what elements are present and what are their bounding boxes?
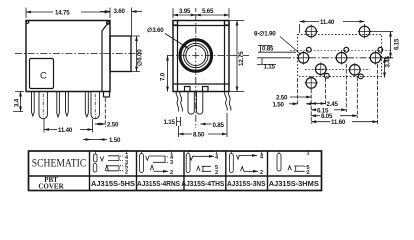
hole L1 small circle — [324, 73, 329, 78]
svg-text:∅6.00: ∅6.00 — [137, 49, 144, 66]
dim 3.95/5.65 center extension — [195, 8, 197, 12]
dim dia6.00 line — [136, 36, 138, 72]
front view body — [173, 21, 229, 92]
svg-text:∅3.60: ∅3.60 — [147, 27, 164, 34]
schematic cell 2: AJ315S-4RNS — [140, 150, 174, 176]
switch contact V — [190, 156, 193, 160]
side view horizontal centerline — [15, 53, 142, 55]
switch contact V — [100, 157, 104, 162]
leader 8-dia1.90 — [280, 37, 301, 55]
ext from M3 — [377, 64, 379, 124]
dim 2.50 (bottom view) line — [290, 96, 311, 98]
table row divider — [29, 175, 322, 177]
svg-text:11.40: 11.40 — [320, 19, 335, 26]
ext from M2 — [345, 64, 347, 112]
dim 6.15 right line — [390, 32, 392, 58]
pin 5 (narrow) — [85, 92, 88, 118]
svg-text:14.75: 14.75 — [55, 10, 70, 17]
top line to pin 4 — [239, 155, 257, 157]
ext from L2 — [356, 77, 358, 118]
leader dots — [304, 167, 308, 172]
dia3.60 leader — [165, 34, 189, 49]
hole M3 small circle — [378, 47, 383, 52]
hole M2 — [336, 53, 347, 64]
side view bottom-right mounting nub — [104, 92, 110, 98]
side view top-left corner circle — [26, 21, 29, 24]
hole L2 crosshair — [348, 63, 361, 77]
bottom view dashed row through lower holes — [305, 69, 370, 71]
svg-text:1: 1 — [307, 150, 310, 156]
ext from L1 small circle — [325, 78, 327, 106]
jack outer ring — [180, 40, 212, 72]
jack sleeve symbol — [186, 154, 190, 173]
switch contact A — [288, 166, 291, 171]
bottom line to pin 2 — [244, 170, 258, 172]
dim 3.60 extensions — [110, 8, 132, 37]
side view body outline — [26, 21, 110, 92]
dim 1.15 left bracket — [257, 58, 284, 65]
front center pin right — [197, 92, 203, 115]
dim 8.05 bottom line — [311, 115, 320, 117]
hole T1 — [306, 26, 317, 37]
svg-text:8-∅1.90: 8-∅1.90 — [254, 31, 276, 38]
svg-text:3: 3 — [170, 160, 173, 166]
hole M2 small circle — [344, 47, 349, 52]
schematic cell 5: AJ315S-3HMS — [277, 150, 310, 176]
switch contact V — [237, 155, 240, 159]
svg-text:1.50: 1.50 — [273, 102, 285, 109]
dim 11.40 (bottom view) line — [300, 21, 320, 23]
table outer border — [29, 151, 322, 191]
pin 2 centerline — [42, 94, 44, 117]
dim 2.50 extension — [104, 98, 106, 127]
svg-text:3.4: 3.4 — [14, 98, 21, 107]
dim 8.50 extensions — [179, 113, 228, 137]
bracket top — [108, 156, 119, 161]
svg-text:12.75: 12.75 — [238, 51, 245, 66]
dim 1.50 arrows — [83, 139, 91, 141]
svg-text:2.50: 2.50 — [107, 122, 119, 129]
svg-text:1.15: 1.15 — [164, 119, 176, 126]
bottom view dotted outline — [298, 34, 382, 76]
dim 11.40 extensions — [44, 119, 93, 133]
dim 5.65 line — [196, 14, 229, 16]
dim 11.40 line — [44, 129, 57, 131]
front view vertical centerline — [195, 14, 197, 128]
top pin line — [279, 151, 306, 154]
top pin line — [231, 152, 259, 154]
long vertical extension from B1 — [310, 89, 312, 124]
svg-text:2: 2 — [125, 170, 128, 176]
leader dots — [165, 157, 169, 163]
hole L2 — [350, 65, 361, 76]
pin 3 (narrow) — [57, 92, 60, 118]
dim 3.60 arrows — [100, 11, 110, 13]
hole L1 crosshair — [314, 62, 327, 76]
svg-text:2.45: 2.45 — [327, 101, 339, 108]
svg-text:0.85: 0.85 — [262, 46, 274, 53]
dim 8.50 line — [179, 133, 193, 135]
dim 3.45 right line — [384, 58, 386, 78]
svg-text:2: 2 — [307, 170, 310, 176]
bracket — [294, 166, 304, 171]
dim 5.65 extension right — [228, 8, 230, 18]
svg-text:0.85: 0.85 — [213, 122, 225, 129]
bottom view horizontal centerline mid row — [284, 57, 394, 59]
svg-text:AJ315S-3NS: AJ315S-3NS — [227, 181, 266, 188]
rect left extension down — [297, 78, 299, 104]
table column dividers — [90, 151, 268, 191]
hole B1 crosshair — [305, 76, 319, 90]
svg-text:3.45: 3.45 — [385, 55, 392, 67]
dim 2.45 line — [311, 103, 325, 105]
side view C cover marking box — [30, 59, 54, 89]
dim 1.50 (bottom view) line — [289, 103, 298, 105]
front leg left (wavy) — [176, 92, 182, 112]
dim 3.95 extension left — [172, 8, 174, 18]
svg-text:AJ315S-5HS: AJ315S-5HS — [91, 181, 135, 188]
jack sleeve symbol lower — [93, 164, 97, 173]
bracket — [202, 166, 212, 171]
hole T2 crosshair — [358, 25, 371, 39]
switch contact A — [197, 166, 200, 171]
dim 11.60 bottom line — [311, 121, 330, 123]
hole M2 crosshair — [335, 51, 348, 65]
bracket bottom — [106, 166, 119, 171]
top pin line — [142, 152, 170, 154]
hole L2 small circle — [358, 74, 363, 79]
dim 11.40 (bottom view) extensions — [300, 24, 365, 33]
dim 6.15 bottom line — [311, 109, 316, 111]
svg-text:7.0: 7.0 — [160, 72, 167, 81]
svg-text:2: 2 — [170, 170, 173, 176]
hole M3 — [370, 53, 381, 64]
jack sleeve symbol — [140, 154, 144, 173]
front leg right (wavy) — [225, 92, 231, 111]
dim 0.85 left bracket — [258, 45, 296, 52]
hole B1 — [306, 78, 317, 89]
front view bottom slot left — [185, 87, 191, 92]
bottom line to pin 2 — [154, 170, 168, 172]
svg-text:COVER: COVER — [38, 182, 64, 190]
front view bottom slot right — [203, 87, 209, 92]
svg-text:AJ315S-3HMS: AJ315S-3HMS — [269, 181, 319, 188]
svg-text:1.50: 1.50 — [109, 137, 121, 144]
dim 0.85 line — [201, 123, 212, 125]
switch contact A — [105, 166, 109, 171]
hole T2 — [359, 26, 370, 37]
svg-text:C: C — [40, 71, 47, 82]
hole M1 small circle — [306, 47, 311, 52]
svg-text:3.95: 3.95 — [179, 8, 191, 15]
hole T1 crosshair — [305, 25, 319, 39]
dim 3.4 line — [20, 92, 22, 112]
svg-text:2: 2 — [215, 170, 218, 176]
switch contact A — [241, 167, 244, 172]
switch contact V — [146, 156, 149, 160]
schematic cell 1: AJ315S-5HS — [93, 150, 129, 176]
jack middle circle — [184, 43, 208, 67]
dim 3.95 line — [173, 14, 196, 16]
front view top-right tab — [225, 21, 230, 26]
front center pin left — [188, 92, 194, 115]
schematic cell 4: AJ315S-3NS — [230, 150, 265, 176]
jack sleeve symbol upper — [94, 154, 97, 162]
svg-text:2.50: 2.50 — [276, 95, 288, 102]
pin 2 (wide stadium) — [39, 92, 47, 119]
svg-text:8.50: 8.50 — [193, 132, 205, 139]
side view barrel (jack sleeve) — [110, 36, 131, 72]
svg-text:2: 2 — [260, 170, 263, 176]
dim 6.15 right extensions — [370, 32, 393, 58]
front view inner frame — [173, 21, 229, 92]
front view top-left tab — [173, 21, 178, 26]
switch contact A — [150, 165, 153, 170]
svg-text:11.60: 11.60 — [331, 119, 346, 126]
svg-text:11.40: 11.40 — [58, 127, 73, 134]
jack sleeve symbol — [230, 154, 234, 173]
dim 3.4 extensions — [13, 92, 24, 112]
svg-text:AJ315S-4THS: AJ315S-4THS — [181, 181, 224, 188]
svg-text:SCHEMATIC: SCHEMATIC — [32, 158, 87, 170]
leader dots — [120, 156, 124, 171]
hole L1 — [316, 64, 327, 75]
svg-text:6.15: 6.15 — [394, 38, 401, 50]
dim 7.0 line — [167, 56, 169, 92]
dim 12.75 line — [236, 21, 238, 92]
hole M1 — [298, 53, 309, 64]
dim 14.75 extension left — [25, 8, 27, 19]
dim 2.50 line — [95, 123, 105, 125]
svg-text:3.60: 3.60 — [114, 8, 126, 15]
dim 1.15 ticks — [177, 117, 181, 126]
schematic cell 3: AJ315S-4THS — [186, 150, 219, 176]
pin 4 (narrow) — [66, 92, 69, 117]
hole M3 crosshair — [369, 51, 382, 65]
svg-text:5.65: 5.65 — [202, 8, 214, 15]
pin 1 (narrow) — [32, 92, 35, 117]
top pin line — [95, 152, 124, 155]
bottom view secondary dashed row — [290, 49, 390, 51]
dim 14.75 line — [26, 11, 53, 13]
svg-text:1.15: 1.15 — [264, 64, 276, 71]
side view front-face inner edge with chamfer — [102, 23, 109, 92]
bracket — [149, 156, 165, 162]
top pin line — [188, 152, 214, 154]
svg-text:AJ315S-4RNS: AJ315S-4RNS — [137, 181, 180, 188]
pin 6 (wide stadium) — [91, 92, 99, 119]
side view top-right corner circle — [107, 21, 110, 24]
pin 6 centerline — [94, 94, 96, 119]
front view horizontal centerline — [167, 55, 249, 57]
dim dia6.00 extensions — [131, 36, 140, 72]
jack inner circle dia3.60 — [186, 46, 206, 66]
jack sleeve symbol — [277, 154, 281, 172]
top line to pin 4 — [193, 155, 214, 157]
hole M1 crosshair — [297, 51, 310, 65]
dim 12.75 extensions — [229, 21, 244, 92]
